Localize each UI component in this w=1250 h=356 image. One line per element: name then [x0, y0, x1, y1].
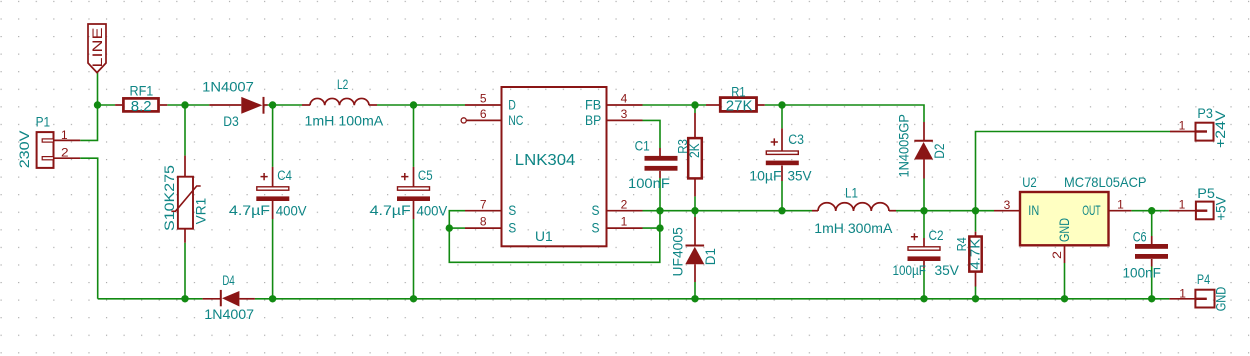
diode D4 [203, 290, 255, 307]
svg-text:UF4005: UF4005 [670, 227, 685, 277]
regulator U2 body [1020, 192, 1109, 245]
svg-text:6: 6 [480, 107, 487, 121]
junction (413.5,105) [410, 101, 417, 108]
svg-text:4.7µF: 4.7µF [229, 204, 270, 219]
svg-text:1: 1 [61, 128, 68, 142]
svg-text:2: 2 [61, 145, 69, 159]
svg-text:GND: GND [1057, 218, 1072, 242]
svg-text:35V: 35V [935, 263, 960, 278]
junction (782,210.7) [778, 207, 785, 214]
U1 pin 6 (NC) with no-connect circle [461, 118, 501, 123]
svg-text:P5: P5 [1197, 185, 1215, 200]
wire U2 OUT pin to P5 [1131, 210, 1169, 212]
wire LINE label to top bus [97, 73, 99, 106]
wire top bus junction to RF1 [98, 104, 116, 106]
svg-text:P3: P3 [1197, 106, 1212, 121]
svg-text:1: 1 [1117, 197, 1124, 211]
wire U1 FB pin 4 to R1 [643, 104, 707, 106]
varistor VR1 [171, 156, 200, 243]
wire VR1 top [184, 105, 186, 156]
wire R1 to D2 cathode branch [765, 105, 924, 122]
svg-text:GND: GND [1213, 287, 1228, 312]
connector P5 [1169, 202, 1214, 220]
svg-text:4.7µF: 4.7µF [370, 204, 411, 219]
svg-text:S: S [508, 220, 516, 236]
resistor R3 [688, 113, 702, 196]
junction (185,298.8) [181, 295, 188, 302]
U1 pin numbers [480, 92, 628, 229]
wire C6 top [1151, 211, 1153, 236]
svg-text:7: 7 [480, 197, 487, 211]
U1 pin 7 (S) [465, 210, 502, 212]
junction (1151.7,298.8) [1148, 295, 1155, 302]
connector P3 [1170, 123, 1214, 141]
svg-text:230V: 230V [18, 131, 33, 169]
svg-text:1: 1 [1179, 197, 1186, 211]
wire U2 GND pin 2 to bottom bus [1064, 263, 1066, 299]
U1 pin 4 (FB) [607, 104, 643, 106]
wire P1 pin 1 to top bus [80, 105, 97, 140]
wire U1 pin 2 to S node [643, 210, 661, 212]
svg-text:100µF: 100µF [893, 263, 927, 278]
resistor R4 [969, 232, 981, 287]
wire +24V rail from S line up to P3 [976, 132, 1171, 211]
svg-text:5: 5 [480, 92, 487, 106]
wire C5 bottom [413, 219, 415, 299]
wire P1 pin 2 down to bottom bus [80, 158, 98, 299]
svg-text:VR1: VR1 [194, 198, 209, 225]
svg-text:FB: FB [585, 97, 601, 112]
wire U1 pin 8 stub [449, 227, 465, 229]
svg-text:C4: C4 [277, 168, 292, 183]
svg-text:L1: L1 [845, 186, 858, 201]
resistor RF1 [115, 98, 167, 111]
U1 pin 1 (S) [607, 227, 643, 229]
capacitor C5 [397, 167, 430, 219]
junction (1151.7,210.7) [1148, 207, 1155, 214]
svg-text:P1: P1 [36, 115, 50, 130]
U2 pin 2 (GND) [1064, 245, 1066, 263]
wire VR1 bottom [184, 243, 186, 299]
junction (272.6,105) [269, 101, 276, 108]
svg-text:L2: L2 [337, 77, 349, 93]
wire C6 bottom [1151, 267, 1153, 299]
svg-text:C6: C6 [1133, 229, 1147, 244]
svg-text:400V: 400V [276, 203, 307, 218]
svg-text:1: 1 [621, 215, 628, 229]
wire bottom bus main segment [255, 298, 1170, 300]
diode D3 [209, 97, 267, 114]
capacitor C6 [1135, 236, 1168, 267]
svg-text:4.7K: 4.7K [968, 238, 982, 270]
svg-text:1mH 300mA: 1mH 300mA [814, 221, 893, 236]
svg-text:C3: C3 [788, 132, 804, 148]
wire C1 bottom to S line [659, 178, 661, 228]
junction (660,228.1) [656, 224, 663, 231]
junction (660,210.7) [656, 207, 663, 214]
svg-text:OUT: OUT [1082, 204, 1100, 218]
U1 pin 3 (BP) [607, 119, 643, 121]
junction (272.6,298.8) [269, 295, 276, 302]
P1 pin numbers [61, 128, 69, 159]
U1 pin 5 (D) [465, 104, 502, 106]
wire RF1 to D3 anode [167, 104, 209, 106]
U2 pin names [1028, 203, 1100, 242]
svg-text:C2: C2 [929, 228, 944, 243]
svg-text:+24V: +24V [1214, 110, 1229, 148]
capacitor C2 [908, 233, 941, 268]
wire R3 top [694, 105, 696, 113]
svg-text:400V: 400V [417, 203, 448, 218]
wire U1 BP pin 3 to C1 top [643, 120, 661, 148]
wire U1 pin 7 loop to pin 8 and around bottom [449, 211, 660, 263]
wire C2 bottom [923, 268, 925, 299]
U1 pin 8 (S) [465, 227, 502, 229]
svg-text:U1: U1 [535, 228, 553, 244]
wire bottom bus left segment [98, 298, 203, 300]
wire L1 to U2 pin 3 [896, 210, 994, 212]
junction (924,210.7) [920, 207, 927, 214]
svg-text:D4: D4 [222, 273, 235, 288]
capacitor C3 [766, 128, 799, 181]
svg-text:4: 4 [621, 92, 628, 106]
svg-text:S: S [592, 220, 600, 236]
svg-text:100nF: 100nF [628, 176, 670, 191]
wire S line to L1 [660, 210, 812, 212]
diode D1 [685, 217, 704, 282]
inductor L1 [812, 203, 896, 211]
svg-text:D1: D1 [703, 248, 718, 265]
wire D2 anode to S line [923, 179, 925, 211]
wire C3 bottom [781, 181, 783, 211]
junction (924,298.8) [920, 295, 927, 302]
svg-text:C5: C5 [418, 168, 433, 183]
inductor L2 [302, 98, 377, 105]
junction (695,105) [691, 101, 698, 108]
svg-text:S: S [592, 203, 600, 219]
junction (975.5,210.7) [972, 207, 979, 214]
svg-text:27K: 27K [726, 98, 753, 115]
junction (449.3,228.1) [446, 224, 453, 231]
svg-text:1: 1 [1179, 119, 1186, 133]
svg-text:C1: C1 [635, 139, 650, 154]
junction (782,105) [778, 101, 785, 108]
wire D3 cathode to L2 [268, 104, 303, 106]
junction (185,105) [181, 101, 188, 108]
svg-text:1N4005GP: 1N4005GP [896, 114, 911, 178]
svg-text:LNK304: LNK304 [515, 152, 576, 170]
svg-text:U2: U2 [1022, 175, 1037, 190]
junction (97.5,105) [94, 101, 101, 108]
svg-text:P4: P4 [1197, 272, 1210, 287]
svg-text:IN: IN [1028, 203, 1039, 218]
junction (975.5,298.8) [972, 295, 979, 302]
svg-text:3: 3 [621, 107, 628, 121]
svg-text:RF1: RF1 [130, 83, 154, 99]
junction (413.5,298.8) [410, 295, 417, 302]
op-amp U1 LNK304 body [502, 87, 607, 246]
U2 pin 1 (OUT) [1109, 210, 1132, 212]
junction (695,210.7) [691, 207, 698, 214]
U1 pin 2 (S) [607, 210, 643, 212]
svg-text:D: D [508, 97, 516, 113]
svg-text:D3: D3 [223, 113, 239, 129]
svg-text:2: 2 [621, 197, 628, 211]
wire R3 bottom [694, 196, 696, 210]
svg-text:S10K275: S10K275 [163, 165, 178, 231]
svg-text:2: 2 [1050, 251, 1064, 259]
wire U1 pin 1 to S node [643, 227, 661, 229]
svg-text:8.2: 8.2 [131, 98, 152, 115]
U2 pin 3 (IN) [994, 210, 1020, 212]
hierarchical label LINE [88, 24, 106, 73]
svg-text:BP: BP [585, 112, 601, 128]
svg-text:3: 3 [1004, 198, 1011, 212]
U2 pin numbers [1004, 197, 1125, 259]
wire C2 top [923, 211, 925, 238]
wire D1 top [694, 211, 696, 217]
wire C5 top [413, 105, 415, 167]
wire L2 to U1 pin 5 [377, 104, 465, 106]
svg-text:35V: 35V [788, 168, 812, 183]
wire R4 top [975, 211, 977, 232]
svg-text:MC78L05ACP: MC78L05ACP [1064, 175, 1147, 190]
resistor R1 [706, 98, 765, 112]
svg-text:+5V: +5V [1214, 196, 1229, 220]
wire C3 top [781, 105, 783, 128]
svg-text:1N4007: 1N4007 [204, 306, 254, 322]
svg-text:LINE: LINE [91, 28, 105, 68]
diode D2 [914, 122, 933, 179]
U1 pin names [508, 97, 601, 236]
wire C4 bottom [272, 219, 274, 299]
svg-text:1N4007: 1N4007 [202, 79, 254, 94]
wire D1 bottom [694, 282, 696, 299]
svg-text:1: 1 [1179, 286, 1186, 300]
connector P1 [37, 132, 81, 168]
wire R4 bottom [975, 287, 977, 299]
junction (695,298.8) [691, 295, 698, 302]
svg-text:10µF: 10µF [749, 169, 781, 184]
svg-text:D2: D2 [932, 144, 947, 159]
capacitor C1 [645, 148, 678, 178]
svg-text:NC: NC [508, 113, 523, 129]
junction (1064.5,298.8) [1061, 295, 1068, 302]
svg-text:8: 8 [480, 215, 487, 229]
wire C4 top [272, 105, 274, 167]
svg-text:100nF: 100nF [1123, 265, 1161, 280]
svg-text:2K: 2K [686, 143, 702, 158]
connector P4 [1169, 290, 1214, 308]
capacitor C4 [256, 167, 289, 219]
svg-text:1mH 100mA: 1mH 100mA [305, 113, 385, 129]
svg-text:S: S [508, 203, 516, 219]
